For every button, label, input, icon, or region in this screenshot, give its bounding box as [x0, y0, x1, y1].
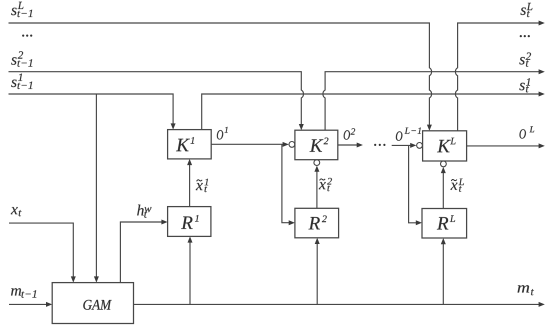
circle at K^L left (input port) [417, 143, 423, 149]
arrowhead s_t^2 at right edge [539, 69, 545, 74]
arrowhead into R^L left [416, 220, 422, 225]
arrowhead x_t into GAM top [71, 276, 76, 282]
label OL-1 [396, 131, 403, 140]
arrowhead s_t-1^2 into K^2 top [299, 124, 304, 130]
box GAM [52, 283, 133, 324]
arrowhead m_t-1 into GAM left [46, 302, 52, 307]
wire s_t^1: rises from K^1 top, runs right to edge [202, 94, 540, 130]
wire h_t^w: from GAM top up, right into R^1 left [120, 222, 162, 283]
box R2 [295, 208, 339, 238]
label O1 [217, 130, 223, 139]
label GAM [83, 300, 111, 310]
circle at K^2 left (input port) [289, 142, 295, 148]
wire R^2 top to circle at K^2 bottom [316, 171, 318, 208]
wire branch of s_t-1^1 down to GAM top [95, 94, 97, 277]
wire m_t: from GAM right along bottom to right edge [134, 303, 540, 305]
label OL [520, 129, 526, 138]
arrowhead into K^2 bottom circle [314, 166, 319, 172]
arrowhead into R^2 left [289, 220, 295, 225]
wire R^L top to circle at K^L bottom [442, 172, 444, 208]
box K2 [295, 130, 338, 160]
wire s_t-1^1 bus: from left edge, corners down into K^1 top [9, 94, 174, 124]
wire m_t-1 into GAM left [9, 303, 47, 305]
arrowhead s_t-1^L into K^L top [427, 125, 432, 131]
wire O^L-1 branch down into R^L left [409, 145, 417, 222]
label K1 [176, 139, 190, 151]
wire O^L-1 into K^L left circle [392, 144, 411, 146]
label s_t-1^1 [11, 80, 16, 88]
wire s_t-1^L bus: from left edge, corners down into K^L top (hops over s2,s1 lines) [9, 23, 432, 125]
box RL [422, 209, 467, 239]
wire R^1 top to K^1 bottom [189, 164, 191, 206]
wire x_t: from left edge, corner down into GAM top [9, 223, 73, 277]
arrowhead O^1 into K^2 left circle [283, 142, 289, 147]
label xtilde_t^2 [319, 182, 326, 189]
label R2 [309, 217, 320, 229]
wire O^2 from K^2 right [338, 144, 358, 146]
label s_t^L [521, 8, 526, 16]
arrowhead O^L-1 into K^L left circle [410, 143, 416, 148]
arrowhead m_t at right edge [539, 302, 545, 307]
ellipsis dots right [520, 35, 522, 37]
arrowhead s_t^L at right edge [539, 21, 545, 26]
label xtilde_t^1 [196, 183, 203, 190]
label h_t^w [137, 205, 144, 216]
circle at K^2 bottom (input port) [314, 160, 320, 166]
label RL [437, 217, 448, 229]
wire m riser into R^L bottom [442, 244, 444, 305]
label m_t [518, 285, 530, 292]
label s_t^1 [519, 83, 524, 91]
arrowhead into R^2 bottom [315, 238, 320, 244]
ellipsis dots middle [374, 144, 376, 146]
circle at K^L bottom (input port) [441, 161, 447, 167]
arrowhead into K^L bottom circle [441, 167, 446, 173]
arrowhead into R^1 bottom [188, 236, 193, 242]
label x_t [11, 207, 18, 214]
arrowhead into R^L bottom [441, 238, 446, 244]
arrowhead h_t^w into R^1 left [161, 220, 167, 225]
box K1 [168, 130, 212, 159]
label K2 [310, 139, 324, 151]
label O2 [344, 130, 350, 139]
box R1 [168, 207, 211, 237]
wire s_t-1^2 bus: from left edge, corners down into K^2 top (hop over s1 line) [9, 72, 304, 125]
wire s_t^2: rises from K^2 top, runs right to edge (hop over s1 line) [323, 72, 539, 131]
wire m riser into R^1 bottom [189, 242, 191, 305]
arrowhead O^L at right edge [539, 143, 545, 148]
arrowhead s_t-1^1 into K^1 top [171, 123, 176, 129]
arrowhead O^2 [357, 143, 363, 148]
wire s_t^L: rises from K^L top, runs right to edge (hops over s2,s1 lines) [455, 23, 539, 131]
label s_t-1^L [11, 8, 16, 16]
wire O^L from K^L right to edge [467, 145, 540, 147]
wire m riser into R^2 bottom [316, 243, 318, 304]
label m_t-1 [11, 288, 21, 295]
arrowhead into GAM top (from s_t-1^1) [94, 276, 99, 282]
label KL [437, 140, 451, 152]
label s_t^2 [519, 57, 524, 65]
wire O^1 from K^1 right to K^2 left circle [211, 143, 283, 145]
ellipsis dots left [22, 35, 24, 37]
arrowhead s_t^1 at right edge [539, 92, 545, 97]
wire O^1 branch down into R^2 left [282, 144, 290, 222]
label R1 [181, 217, 192, 229]
label xtilde_t^L [451, 183, 458, 190]
arrowhead into K^1 bottom [187, 159, 192, 165]
box KL [423, 131, 467, 161]
label s_t-1^2 [11, 57, 16, 65]
